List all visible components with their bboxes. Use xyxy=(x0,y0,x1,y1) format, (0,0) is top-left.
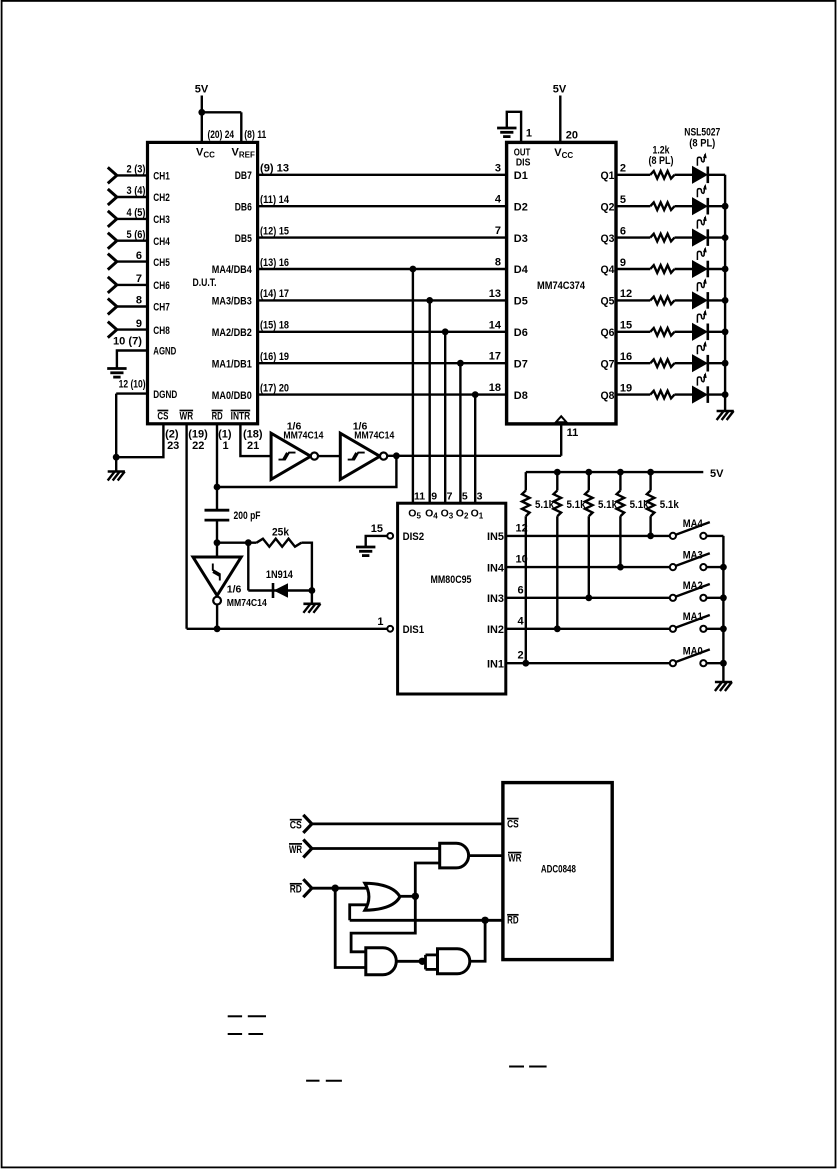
junction MA4 line xyxy=(410,266,417,273)
svg-text:5 (6): 5 (6) xyxy=(127,229,146,241)
wire R2 top xyxy=(556,472,558,490)
resistor R5 5.1k xyxy=(647,491,655,517)
wire Q1 output xyxy=(615,174,650,176)
junction switch bus xyxy=(720,625,727,632)
switch S2 MA1 xyxy=(670,626,676,632)
wire MA4 to O5 xyxy=(412,269,414,504)
svg-text:9: 9 xyxy=(620,257,626,269)
svg-text:2: 2 xyxy=(620,163,626,175)
svg-text:DIS2: DIS2 xyxy=(403,531,425,543)
ground 1N914 (chassis) xyxy=(303,602,320,605)
bubble DIS2 xyxy=(387,533,393,539)
resistor 1.2k row 8 xyxy=(650,391,674,399)
ground LED bus (chassis) xyxy=(717,410,734,413)
wire to VREF xyxy=(202,111,242,113)
wire CH7 xyxy=(117,305,149,307)
svg-text:IN2: IN2 xyxy=(487,624,504,636)
wire VCC pin 24 xyxy=(201,112,203,143)
inverter U2c 1/6 MM74C14 (down) xyxy=(193,557,241,596)
wire LED1 cathode xyxy=(709,174,725,176)
svg-text:5: 5 xyxy=(620,194,626,206)
svg-text:9: 9 xyxy=(136,318,142,330)
wire to 25k loop xyxy=(217,542,257,544)
wire 25k right xyxy=(301,543,312,591)
ground AGND (earth) xyxy=(107,367,126,370)
svg-text:3 (4): 3 (4) xyxy=(127,185,146,197)
junction diode/ground xyxy=(309,587,316,594)
wire DIS1 net xyxy=(187,628,388,630)
overline dash pair d xyxy=(509,1066,524,1068)
svg-text:20: 20 xyxy=(566,129,578,141)
svg-text:(14) 17: (14) 17 xyxy=(260,288,289,300)
wire LED7 cathode xyxy=(709,362,725,364)
junction RD net xyxy=(481,917,488,924)
wire R5 bottom xyxy=(649,516,651,536)
wire R4 top xyxy=(619,472,621,490)
svg-text:CH4: CH4 xyxy=(153,236,170,248)
wire clock line to pin 11 xyxy=(387,455,561,457)
svg-text:CH5: CH5 xyxy=(153,257,170,269)
wire DGND drop xyxy=(115,394,117,472)
wire 5V stub xyxy=(201,96,203,113)
wire G1 lower input xyxy=(415,863,439,896)
wire feedback drop xyxy=(217,456,396,487)
junction RD branch xyxy=(332,885,339,892)
input arrow CH4 xyxy=(108,233,117,241)
wire clock pin 11 xyxy=(560,424,562,456)
wire to LED3 xyxy=(675,236,693,238)
wire G4 tied inputs xyxy=(424,955,427,970)
wire to LED7 xyxy=(675,362,693,364)
wire Q8 output xyxy=(615,393,650,395)
wire CH5 xyxy=(117,260,149,262)
svg-text:(18): (18) xyxy=(243,428,263,440)
svg-text:MA2: MA2 xyxy=(683,580,703,592)
switch S1 MA0 xyxy=(670,660,676,666)
junction rail R2 xyxy=(554,469,561,476)
svg-text:5V: 5V xyxy=(195,84,209,96)
wire MA0/DB0 data line xyxy=(257,393,508,395)
svg-text:CH8: CH8 xyxy=(153,325,170,337)
svg-text:(8 PL): (8 PL) xyxy=(689,138,715,150)
svg-text:MM74C14: MM74C14 xyxy=(354,430,394,442)
wire R3 top xyxy=(588,472,590,490)
svg-text:WR: WR xyxy=(180,410,194,422)
svg-text:IN3: IN3 xyxy=(487,593,504,605)
wire IN4 xyxy=(505,566,670,568)
junction G2 output xyxy=(412,893,419,900)
wire MA3/DB3 data line xyxy=(257,299,508,301)
svg-text:RD: RD xyxy=(507,915,519,927)
svg-text:1: 1 xyxy=(377,616,383,628)
LED CR8 NSL5027 xyxy=(693,386,707,402)
wire Q2 output xyxy=(615,205,650,207)
svg-text:200 pF: 200 pF xyxy=(234,510,261,522)
wire diode branch xyxy=(247,543,249,591)
svg-text:DGND: DGND xyxy=(153,389,177,401)
wire inverter input xyxy=(216,543,218,557)
IC U1 D.U.T. body xyxy=(148,142,258,423)
svg-text:15: 15 xyxy=(371,523,383,535)
svg-text:7: 7 xyxy=(136,273,142,285)
svg-text:MA2/DB2: MA2/DB2 xyxy=(212,327,252,339)
svg-text:DB5: DB5 xyxy=(235,233,252,245)
junction R4/IN4 xyxy=(617,564,624,571)
wire R1 bottom xyxy=(525,516,527,663)
wire to ground xyxy=(311,591,313,604)
AND gate G3 xyxy=(366,948,397,975)
resistor 1.2k row 2 xyxy=(650,202,674,210)
IC U5 ADC0848 body xyxy=(503,783,612,960)
svg-text:11: 11 xyxy=(414,490,425,502)
LED CR1 NSL5027 xyxy=(693,167,707,183)
svg-text:(2): (2) xyxy=(165,428,179,440)
svg-text:DIS1: DIS1 xyxy=(403,624,425,636)
svg-text:12 (10): 12 (10) xyxy=(119,379,146,391)
wire Q7 output xyxy=(615,362,650,364)
input arrow CH1 xyxy=(108,167,117,175)
resistor 1.2k row 3 xyxy=(650,234,674,242)
svg-text:D2: D2 xyxy=(514,201,528,213)
svg-text:D6: D6 xyxy=(514,327,528,339)
wire RD to OR gate xyxy=(312,887,368,890)
svg-text:RD: RD xyxy=(290,884,302,896)
wire LED5 cathode xyxy=(709,299,725,301)
wire CS pin xyxy=(116,424,163,457)
wire DIS2 to ground xyxy=(366,536,388,547)
wire IN3 xyxy=(505,597,670,599)
svg-text:17: 17 xyxy=(489,351,501,363)
svg-text:DB7: DB7 xyxy=(235,170,252,182)
input arrow CH3 xyxy=(108,211,117,219)
AND gate G4 xyxy=(438,949,470,974)
svg-text:4 (5): 4 (5) xyxy=(127,207,146,219)
wire IN2 xyxy=(505,628,670,630)
junction R3/IN3 xyxy=(585,594,592,601)
svg-text:1N914: 1N914 xyxy=(266,569,294,581)
wire MA4/DB4 data line xyxy=(257,268,508,270)
junction R1/IN1 xyxy=(522,660,529,667)
svg-text:(13) 16: (13) 16 xyxy=(260,257,289,269)
svg-text:MA3/DB3: MA3/DB3 xyxy=(212,296,252,308)
switch S4 MA3 xyxy=(670,564,676,570)
capacitor C1 200 pF xyxy=(205,509,230,512)
wire WR to AND gate xyxy=(312,847,440,850)
wire CH2 xyxy=(117,196,149,198)
IC U4 MM80C95 body xyxy=(398,503,506,694)
wire to LED1 xyxy=(675,174,693,176)
svg-text:MM80C95: MM80C95 xyxy=(431,574,472,586)
wire MA3 to O4 xyxy=(429,300,431,504)
svg-text:MA0/DB0: MA0/DB0 xyxy=(212,390,252,402)
svg-text:IN5: IN5 xyxy=(487,531,504,543)
junction R2/IN2 xyxy=(554,625,561,632)
junction switch bus xyxy=(720,660,727,667)
wire to LED2 xyxy=(675,205,693,207)
junction LED bus xyxy=(722,360,729,367)
wire IN1 xyxy=(505,662,670,664)
svg-text:1: 1 xyxy=(526,128,532,140)
svg-text:7: 7 xyxy=(447,490,453,502)
wire AGND xyxy=(117,351,149,369)
wire R5 top xyxy=(649,472,651,490)
resistor R9 25k xyxy=(257,539,302,547)
svg-text:6: 6 xyxy=(136,250,142,262)
svg-text:15: 15 xyxy=(620,320,632,332)
junction LED bus xyxy=(722,297,729,304)
svg-text:2 (3): 2 (3) xyxy=(127,164,146,176)
wire to LED6 xyxy=(675,331,693,333)
svg-text:Q2: Q2 xyxy=(601,201,615,213)
svg-text:MM74C14: MM74C14 xyxy=(227,597,267,609)
svg-text:(16) 19: (16) 19 xyxy=(260,351,289,363)
wire INTR pin xyxy=(240,424,271,456)
svg-text:4: 4 xyxy=(518,615,525,627)
junction LED bus xyxy=(722,234,729,241)
svg-text:23: 23 xyxy=(167,440,179,452)
junction 5V/VREF xyxy=(198,109,205,116)
wire Q5 output xyxy=(615,299,650,301)
junction MA3 line xyxy=(426,297,433,304)
diode D1 1N914 xyxy=(272,583,275,598)
LED CR3 NSL5027 xyxy=(693,229,707,245)
junction rail R5 xyxy=(647,469,654,476)
wire CH6 xyxy=(117,284,149,286)
junction switch bus xyxy=(720,564,727,571)
svg-text:14: 14 xyxy=(489,319,502,331)
input arrow CH8 xyxy=(108,322,117,330)
wire LED8 cathode xyxy=(709,393,725,395)
wire U2c output xyxy=(216,604,218,629)
wire MA2 to O3 xyxy=(444,332,446,504)
wire R4 bottom xyxy=(619,516,621,567)
clock triangle pin 11 xyxy=(556,416,567,422)
wire LED4 cathode xyxy=(709,268,725,270)
wire DB7 data line xyxy=(257,174,508,176)
svg-text:MM74C14: MM74C14 xyxy=(283,430,323,442)
wire CH1 xyxy=(117,174,149,176)
wire Q4 output xyxy=(615,268,650,270)
svg-text:RD: RD xyxy=(212,410,223,422)
svg-text:IN1: IN1 xyxy=(487,658,504,670)
svg-text:(8 PL): (8 PL) xyxy=(649,155,674,167)
junction G3/G4 inputs xyxy=(419,958,426,965)
bubble U2b xyxy=(380,453,387,460)
wire DGND xyxy=(116,392,148,394)
wire R3 bottom xyxy=(588,516,590,598)
svg-text:D1: D1 xyxy=(514,170,528,182)
junction MA1 line xyxy=(457,360,464,367)
svg-text:(17) 20: (17) 20 xyxy=(260,382,289,394)
junction DIS1 net xyxy=(214,625,221,632)
svg-text:3: 3 xyxy=(495,162,501,174)
input arrow CH6 xyxy=(108,277,117,285)
junction rail R4 xyxy=(617,469,624,476)
wire U2a-U2b xyxy=(318,455,340,457)
junction rail R3 xyxy=(585,469,592,476)
svg-text:CH1: CH1 xyxy=(153,171,170,183)
svg-text:Q4: Q4 xyxy=(601,264,616,276)
svg-text:Q6: Q6 xyxy=(601,327,615,339)
svg-text:(12) 15: (12) 15 xyxy=(260,225,289,237)
wire R1 top xyxy=(525,472,527,490)
resistor R2 5.1k xyxy=(554,491,562,517)
svg-text:Q3: Q3 xyxy=(601,233,615,245)
wire G1 output to ADC WR xyxy=(469,854,504,857)
junction LED bus xyxy=(722,203,729,210)
wire RD down branch xyxy=(335,888,366,967)
svg-text:9: 9 xyxy=(431,490,437,502)
wire MA2/DB2 data line xyxy=(257,331,508,333)
input arrow CH5 xyxy=(108,254,117,262)
wire CH3 xyxy=(117,218,149,220)
svg-text:12: 12 xyxy=(620,288,632,300)
junction LED bus xyxy=(722,328,729,335)
svg-text:MA3: MA3 xyxy=(683,549,703,561)
svg-text:10 (7): 10 (7) xyxy=(113,335,142,347)
svg-text:(19): (19) xyxy=(188,428,208,440)
svg-text:D5: D5 xyxy=(514,296,528,308)
wire LED6 cathode xyxy=(709,331,725,333)
wire VREF pin 11 xyxy=(240,112,242,143)
wire G2 output to G3 xyxy=(351,896,415,952)
bubble U2a xyxy=(311,453,318,460)
junction MA0 line xyxy=(472,391,479,398)
svg-text:CS: CS xyxy=(507,819,518,831)
junction cap/inverter input xyxy=(214,539,221,546)
svg-text:CS: CS xyxy=(157,410,168,422)
wire CH8 xyxy=(117,328,149,330)
wire G4 output to RD net xyxy=(470,920,485,961)
svg-text:CH2: CH2 xyxy=(153,192,170,204)
svg-text:7: 7 xyxy=(495,225,501,237)
OR gate G2 (RD) xyxy=(365,883,400,910)
wire DB6 data line xyxy=(257,205,508,207)
wire to LED4 xyxy=(675,268,693,270)
svg-text:Q5: Q5 xyxy=(601,296,615,308)
wire RD net to ADC xyxy=(350,919,504,922)
svg-text:8: 8 xyxy=(495,257,501,269)
IC U3 MM74C374 body xyxy=(507,142,616,424)
wire to LED8 xyxy=(675,393,693,395)
input arrow CS xyxy=(303,815,312,824)
resistor 1.2k row 5 xyxy=(650,297,674,305)
ground DIS2 (earth) xyxy=(356,546,375,549)
svg-text:22: 22 xyxy=(192,440,204,452)
junction R5/IN5 xyxy=(647,533,654,540)
svg-text:5: 5 xyxy=(462,490,468,502)
input arrow CH2 xyxy=(108,189,117,197)
overline dash pair b xyxy=(228,1033,242,1035)
svg-text:2: 2 xyxy=(518,650,524,662)
wire G3 output xyxy=(396,960,425,963)
svg-text:ADC0848: ADC0848 xyxy=(541,863,576,875)
svg-text:D.U.T.: D.U.T. xyxy=(193,277,217,289)
wire LED bus xyxy=(724,175,726,411)
svg-text:5V: 5V xyxy=(553,84,567,96)
svg-text:11: 11 xyxy=(567,427,579,439)
svg-text:IN4: IN4 xyxy=(487,562,505,574)
wire OUT DIS pin 1 xyxy=(507,112,521,144)
LED CR2 NSL5027 xyxy=(693,198,707,214)
svg-text:CH6: CH6 xyxy=(153,280,170,292)
input arrow WR xyxy=(303,840,312,849)
LED CR4 NSL5027 xyxy=(693,261,707,277)
wire LED2 cathode xyxy=(709,205,725,207)
input arrow RD xyxy=(303,879,312,888)
ground OUT DIS (earth) xyxy=(497,127,516,130)
svg-text:(11) 14: (11) 14 xyxy=(260,194,290,206)
wire diode row xyxy=(248,589,312,591)
junction DGND/CS xyxy=(113,454,120,461)
ground DGND (chassis) xyxy=(108,470,125,473)
wire IN5 xyxy=(505,535,670,537)
wire switch bus xyxy=(722,536,724,682)
input arrow CH7 xyxy=(108,299,117,307)
svg-text:18: 18 xyxy=(489,382,501,394)
bubble DIS1 xyxy=(387,626,393,632)
svg-text:Q8: Q8 xyxy=(601,390,615,402)
switch S5 MA4 xyxy=(670,533,676,539)
junction MA2 line xyxy=(442,328,449,335)
svg-text:5.1k: 5.1k xyxy=(660,499,680,511)
wire R2 bottom xyxy=(556,516,558,629)
overline dash pair a xyxy=(228,1015,242,1017)
svg-text:MA4: MA4 xyxy=(683,518,704,530)
svg-text:CH3: CH3 xyxy=(153,214,170,226)
wire CS to ADC xyxy=(312,823,504,826)
svg-text:Q7: Q7 xyxy=(601,358,615,370)
wire to LED5 xyxy=(675,299,693,301)
svg-text:(9) 13: (9) 13 xyxy=(260,163,289,175)
wire G2 lower input stub xyxy=(350,905,368,921)
svg-text:D7: D7 xyxy=(514,358,528,370)
svg-text:CS: CS xyxy=(290,819,302,831)
resistor R3 5.1k xyxy=(585,491,593,517)
wire WR pin (to DIS1 net) xyxy=(185,424,187,629)
junction clock/feedback xyxy=(393,452,400,459)
inverter U2a 1/6 MM74C14 xyxy=(271,433,311,479)
wire 5V rail xyxy=(526,471,704,473)
junction LED bus xyxy=(722,266,729,273)
bubble U2c xyxy=(213,597,221,605)
svg-text:6: 6 xyxy=(518,584,524,596)
svg-text:(20) 24: (20) 24 xyxy=(208,129,235,141)
wire Q6 output xyxy=(615,331,650,333)
resistor R1 5.1k xyxy=(522,491,530,517)
svg-text:MA0: MA0 xyxy=(683,645,703,657)
inverter U2b 1/6 MM74C14 xyxy=(340,433,380,479)
wire LED3 cathode xyxy=(709,236,725,238)
wire capacitor bottom xyxy=(216,520,218,543)
resistor 1.2k row 6 xyxy=(650,328,674,336)
AND gate G1 (WR) xyxy=(440,843,469,868)
svg-text:Q1: Q1 xyxy=(601,170,615,182)
svg-text:CH7: CH7 xyxy=(153,302,170,314)
svg-text:AGND: AGND xyxy=(153,346,176,358)
svg-text:8: 8 xyxy=(136,295,142,307)
svg-text:25k: 25k xyxy=(272,526,290,538)
wire CH4 xyxy=(117,239,149,241)
wire Q3 output xyxy=(615,236,650,238)
svg-text:6: 6 xyxy=(620,225,626,237)
svg-text:1/6: 1/6 xyxy=(227,583,242,595)
LED CR6 NSL5027 xyxy=(693,324,707,340)
svg-text:DB6: DB6 xyxy=(235,201,252,213)
svg-text:21: 21 xyxy=(247,440,259,452)
svg-text:(15) 18: (15) 18 xyxy=(260,320,289,332)
svg-text:1: 1 xyxy=(223,440,229,452)
